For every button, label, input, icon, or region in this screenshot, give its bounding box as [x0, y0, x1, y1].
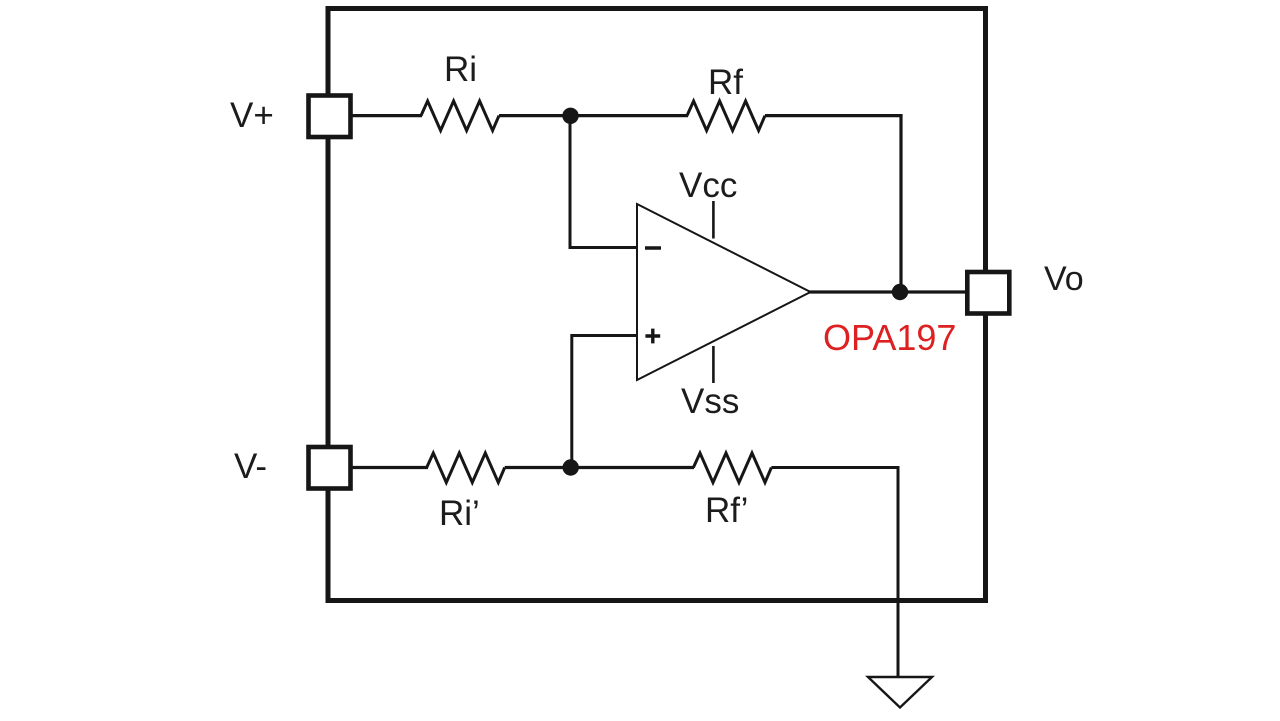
terminal V+	[309, 96, 351, 138]
wire: Ri' to node B	[505, 466, 572, 469]
terminal V-	[309, 447, 351, 489]
plus sign (noninverting input)	[645, 329, 660, 344]
svg-text:Vss: Vss	[681, 382, 739, 421]
wire: Rf right, corner down to output node	[765, 116, 901, 292]
wire: Rf' right, corner down to ground	[771, 468, 898, 678]
svg-text:Vo: Vo	[1044, 260, 1084, 298]
svg-text:OPA197: OPA197	[823, 317, 956, 358]
terminal Vo	[967, 272, 1009, 314]
svg-text:Vcc: Vcc	[679, 166, 737, 205]
svg-text:V+: V+	[230, 96, 274, 135]
op-amp U1 (OPA197 triangle)	[637, 204, 811, 380]
wire: V+ terminal to resistor Ri	[350, 114, 422, 117]
frame border	[328, 9, 986, 601]
svg-text:Rf’: Rf’	[705, 491, 748, 530]
wire: op-amp output to Vo terminal	[808, 290, 968, 293]
node B (junction dot)	[563, 459, 579, 475]
wire: node A down and right to inverting input	[570, 116, 637, 248]
resistor Rf'	[693, 453, 771, 483]
wire: Ri to node A	[499, 114, 572, 117]
wire: Vcc supply stub	[712, 201, 715, 239]
wire: noninverting input horizontal and down to node B	[572, 336, 637, 468]
svg-text:Rf: Rf	[708, 63, 743, 102]
svg-text:V-: V-	[234, 447, 267, 486]
svg-text:Ri: Ri	[444, 50, 477, 89]
node: output junction dot	[892, 284, 908, 300]
ground	[868, 677, 932, 708]
minus sign (inverting input)	[645, 246, 661, 250]
node A (junction dot)	[562, 108, 578, 124]
wire: node A to resistor Rf	[570, 114, 688, 117]
wire: Vss supply stub	[712, 346, 715, 383]
svg-text:Ri’: Ri’	[439, 494, 480, 533]
wire: node B to resistor Rf'	[570, 466, 694, 469]
wire: V- terminal to resistor Ri'	[350, 466, 428, 469]
resistor Ri'	[427, 453, 505, 483]
resistor Rf	[687, 101, 765, 131]
resistor Ri	[421, 101, 499, 131]
